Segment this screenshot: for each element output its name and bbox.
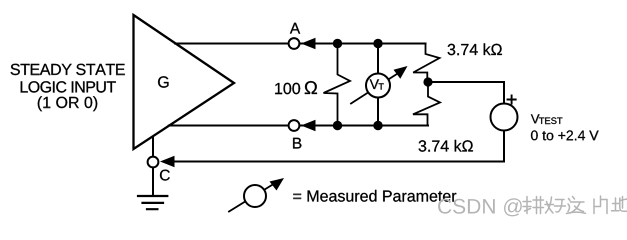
watermark chinese glyph strokes [523,196,627,214]
label 3.74 kohm upper [448,43,502,55]
legend arrowhead [270,178,285,191]
node junction dot top of 100 ohm [333,39,342,48]
terminal C circle [148,157,159,168]
node junction dot bottom of VT branch [373,121,382,130]
label A [290,23,300,34]
plus sign of VTEST [508,95,516,103]
wire triangle to terminal B [169,125,288,127]
measured parameter VT arrow line [351,72,400,104]
watermark CSDN [438,198,522,216]
wire VTEST bottom to terminal C [175,131,504,162]
label STEADY STATE LOGIC INPUT (1 OR 0) [11,64,125,111]
op-amp G driver triangle [134,15,235,149]
wire terminal C to ground [152,168,154,196]
label = Measured Parameter [293,190,456,202]
node junction dot top of VT branch [373,39,382,48]
label B [293,138,301,149]
resistor 100 ohm [324,44,351,126]
measured parameter VT circle [366,74,390,98]
label VT [370,79,384,89]
arrowhead of VT arrow [394,66,408,79]
voltage source VTEST circle [491,104,518,131]
label C [160,170,170,181]
label G [158,76,168,87]
legend measured parameter circle [244,185,266,207]
wire triangle bottom edge to terminal C [152,137,154,157]
wire terminal A to resistor network [300,43,426,45]
arrowhead at C [160,156,175,167]
label VTEST [531,114,599,140]
ground [138,196,167,209]
node junction dot bottom of 100 ohm [333,121,342,130]
wire triangle to terminal A [175,43,288,45]
wire divider mid to VTEST plus [428,82,504,104]
node junction dot mid divider [423,77,432,86]
arrowhead at A [301,38,316,49]
wire VT branch vertical [377,44,379,126]
resistor 3.74 kohm upper [413,44,439,83]
wire terminal B to resistor network [300,125,428,127]
terminal A circle [289,38,300,49]
label 100 ohm [275,81,317,94]
terminal B circle [289,120,300,131]
arrowhead at B [301,120,316,131]
label 3.74 kohm lower [419,140,473,152]
resistor 3.74 kohm lower [413,82,440,126]
legend measured parameter arrow line [229,185,272,212]
